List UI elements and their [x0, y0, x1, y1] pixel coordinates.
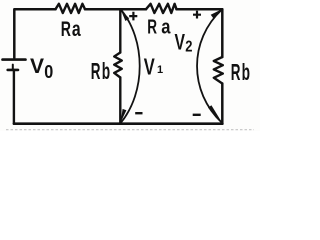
wire: right branch upper — [221, 9, 224, 57]
wire: left lower segment — [13, 70, 15, 124]
wire: bottom — [14, 122, 222, 125]
resistor Ra (left) zigzag — [56, 4, 86, 13]
wire: top right segment — [177, 8, 223, 11]
svg-text:R: R — [91, 58, 101, 84]
wire: top-left segment with left corner — [14, 9, 55, 58]
voltage arc V2 — [197, 10, 222, 123]
wire: middle branch upper — [119, 9, 121, 52]
plus sign V2 — [193, 11, 201, 19]
resistor Ra (right) zigzag — [146, 4, 177, 13]
svg-text:V: V — [175, 29, 186, 54]
wire: top middle segment — [85, 8, 146, 11]
battery V0 stub between plates — [12, 65, 14, 70]
scan artifact line at bottom — [6, 129, 254, 131]
arrowhead V2 top — [211, 9, 222, 18]
arrowhead V1 bottom — [121, 109, 127, 122]
battery V0 long plate — [3, 58, 26, 61]
svg-text:1: 1 — [157, 64, 163, 76]
svg-text:R: R — [61, 17, 72, 41]
wire: right branch lower — [221, 84, 224, 124]
svg-text:b: b — [102, 58, 110, 84]
wire: middle branch lower — [119, 78, 121, 124]
svg-text:b: b — [242, 59, 250, 85]
voltage arc V1 — [121, 10, 140, 123]
svg-text:0: 0 — [44, 62, 53, 82]
svg-text:a: a — [72, 17, 82, 41]
resistor Rb (middle) zigzag — [114, 53, 122, 78]
arrowhead V2 bottom — [208, 105, 222, 122]
minus sign V1 — [135, 112, 142, 114]
svg-text:R: R — [147, 16, 157, 39]
minus sign V2 — [193, 114, 201, 116]
battery V0 short plate — [8, 69, 18, 72]
svg-text:a: a — [161, 16, 171, 39]
svg-text:R: R — [231, 59, 241, 85]
svg-text:V: V — [30, 55, 44, 78]
svg-text:V: V — [144, 54, 155, 80]
svg-text:2: 2 — [185, 39, 192, 56]
arrowhead V1 top — [121, 10, 129, 21]
resistor Rb (right) zigzag — [214, 57, 223, 84]
plus sign V1 — [129, 12, 137, 21]
